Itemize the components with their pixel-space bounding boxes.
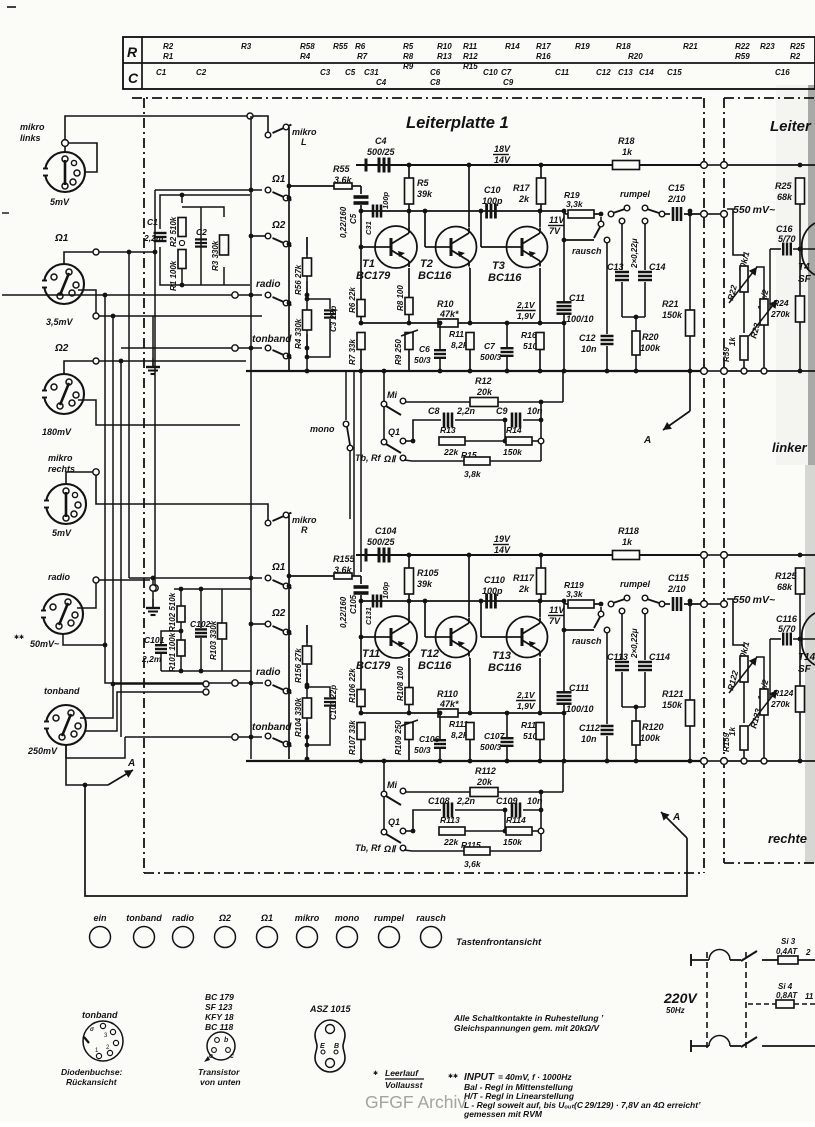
svg-text:tonband: tonband (82, 1010, 118, 1020)
svg-text:gemessen mit RVM: gemessen mit RVM (463, 1109, 543, 1119)
switch rausch (600, 217, 602, 221)
svg-text:5mV: 5mV (52, 528, 72, 538)
svg-text:SF: SF (798, 664, 812, 675)
svg-text:C9: C9 (496, 406, 508, 416)
svg-text:C11: C11 (555, 68, 570, 77)
svg-text:SF: SF (798, 274, 812, 285)
svg-text:T1: T1 (362, 258, 375, 270)
svg-text:C: C (128, 70, 139, 86)
Leiterplatte 1 border right (703, 98, 705, 873)
transistor T11 BC179 (361, 636, 375, 638)
resistor R19 3,3k (562, 211, 601, 214)
Leiterplatte 1 border left (143, 98, 145, 873)
svg-text:C13: C13 (607, 262, 624, 272)
svg-text:Ω2: Ω2 (218, 913, 231, 923)
resistor R104 330k (303, 698, 312, 718)
svg-text:R9: R9 (403, 62, 414, 71)
svg-text:rausch: rausch (572, 246, 602, 256)
arrow A lower channel (686, 838, 688, 876)
socket mikro links (45, 152, 85, 192)
switch bank bus (288, 515, 290, 759)
svg-text:R5: R5 (417, 178, 429, 188)
svg-text:500/3: 500/3 (480, 742, 502, 752)
svg-text:radio: radio (172, 913, 195, 923)
component table frame (123, 37, 815, 89)
feedback line (361, 712, 439, 714)
svg-text:R13: R13 (440, 425, 456, 435)
svg-text:R106 22k: R106 22k (348, 668, 357, 703)
resistor R156 27k (306, 625, 308, 643)
svg-text:Gleichspannungen gem. mit 20kΩ: Gleichspannungen gem. mit 20kΩ/V (454, 1023, 600, 1033)
svg-text:rausch: rausch (416, 913, 446, 923)
svg-text:1k: 1k (622, 537, 633, 547)
svg-text:180mV: 180mV (42, 427, 72, 437)
svg-text:Q1: Q1 (388, 817, 400, 827)
svg-text:C13: C13 (618, 68, 633, 77)
svg-text:Tastenfrontansicht: Tastenfrontansicht (456, 937, 542, 948)
svg-text:R7: R7 (357, 52, 368, 61)
svg-text:Mi: Mi (387, 390, 397, 400)
svg-text:T2: T2 (420, 258, 433, 270)
svg-text:R156 27k: R156 27k (294, 648, 303, 683)
resistor R125 68k (727, 554, 815, 556)
vertical wire bundle left (104, 295, 106, 645)
svg-text:39k: 39k (417, 579, 433, 589)
open terminals at border (701, 552, 708, 559)
svg-text:BC116: BC116 (418, 660, 452, 672)
wire omega1 top (64, 252, 93, 265)
svg-text:C7: C7 (484, 341, 496, 351)
svg-text:Mi: Mi (387, 780, 397, 790)
svg-text:Diodenbuchse:: Diodenbuchse: (61, 1067, 123, 1077)
scan shadow right edge (776, 85, 808, 465)
capacitor C111 100/10 (563, 601, 565, 692)
svg-text:R18: R18 (618, 136, 635, 146)
socket Omega1 left (44, 264, 84, 304)
svg-text:R101 100k: R101 100k (168, 632, 177, 672)
svg-text:C15: C15 (668, 183, 686, 193)
svg-text:19V: 19V (494, 534, 511, 544)
svg-text:✱✱: ✱✱ (448, 1073, 458, 1080)
switch mono (345, 371, 347, 420)
svg-text:R14: R14 (506, 425, 522, 435)
svg-text:C7: C7 (501, 68, 512, 77)
wire tonband row upper (121, 347, 232, 349)
svg-text:von unten: von unten (200, 1077, 241, 1087)
svg-text:14V: 14V (494, 545, 511, 555)
svg-text:BC 118: BC 118 (205, 1022, 233, 1032)
svg-text:R112: R112 (475, 766, 496, 776)
svg-text:R6: R6 (355, 42, 366, 51)
wire mikro links to switch (62, 140, 69, 147)
attenuator network C1 (160, 195, 250, 229)
svg-text:2,2n: 2,2n (456, 796, 476, 806)
switch feed bends (262, 504, 268, 520)
svg-text:Q1: Q1 (388, 427, 400, 437)
open terminals at border (701, 162, 708, 169)
svg-text:Vollausst: Vollausst (385, 1080, 424, 1090)
resistor R5 39k (407, 163, 412, 168)
transistor T12 BC116 (424, 601, 426, 637)
wire 550mV node (727, 209, 744, 257)
svg-text:C31: C31 (364, 68, 379, 77)
ground lower (152, 578, 154, 585)
svg-text:R25: R25 (790, 42, 805, 51)
socket radio (43, 594, 83, 634)
svg-text:100/10: 100/10 (566, 314, 594, 324)
svg-text:C14: C14 (639, 68, 654, 77)
svg-text:150k: 150k (662, 310, 683, 320)
svg-text:R108 100: R108 100 (396, 666, 405, 701)
wire mikro rechts feed (66, 472, 93, 484)
svg-text:C4: C4 (376, 78, 387, 87)
svg-text:BC116: BC116 (488, 272, 522, 284)
resistor R4 330k (303, 310, 312, 330)
socket Omega2 left (44, 374, 84, 414)
svg-text:C104: C104 (375, 526, 397, 536)
wire omega1 bottom (78, 290, 262, 316)
svg-text:KFY 18: KFY 18 (205, 1012, 234, 1022)
svg-text:c: c (230, 1053, 234, 1060)
svg-text:22k: 22k (443, 837, 459, 847)
mains lower wire (690, 1040, 692, 1052)
svg-text:R105: R105 (417, 568, 440, 578)
svg-text:R9 250: R9 250 (394, 339, 403, 365)
svg-text:R1: R1 (163, 52, 174, 61)
svg-text:e: e (209, 1053, 213, 1060)
svg-text:R102 510k: R102 510k (168, 592, 177, 632)
svg-text:Alle Schaltkontakte in Ruheste: Alle Schaltkontakte in Ruhestellung ’ (453, 1013, 604, 1023)
svg-text:Leiter: Leiter (770, 118, 812, 135)
svg-text:C11: C11 (569, 293, 585, 303)
svg-text:R55: R55 (333, 42, 348, 51)
svg-text:C31: C31 (364, 221, 373, 235)
svg-text:150k: 150k (503, 447, 523, 457)
corner registration marks (7, 6, 16, 8)
svg-text:ein: ein (93, 913, 107, 923)
resistor R9 250 (405, 333, 413, 350)
svg-text:R4 330k: R4 330k (294, 318, 303, 349)
wire long bottom run (85, 785, 687, 896)
button ein (90, 927, 111, 948)
svg-text:47k*: 47k* (439, 309, 459, 319)
svg-text:A: A (643, 435, 651, 446)
svg-text:220V: 220V (663, 990, 698, 1006)
signal line (361, 600, 562, 602)
svg-text:BC116: BC116 (418, 270, 452, 282)
inter-channel verticals (353, 371, 355, 576)
svg-text:C1: C1 (156, 68, 167, 77)
wire radio to lower switch (63, 633, 232, 683)
bottom rail right strip (727, 760, 815, 762)
svg-text:T13: T13 (492, 650, 511, 662)
svg-text:68k: 68k (777, 192, 793, 202)
svg-text:R: R (127, 44, 138, 60)
svg-text:500/25: 500/25 (367, 537, 396, 547)
wire radio row upper (2, 294, 232, 296)
svg-text:C16: C16 (776, 224, 794, 234)
resistor R25 68k (727, 164, 815, 166)
svg-text:C8: C8 (428, 406, 440, 416)
svg-text:68k: 68k (777, 582, 793, 592)
svg-text:0,22/160: 0,22/160 (339, 206, 348, 238)
svg-text:tonband: tonband (126, 913, 162, 923)
svg-text:mono: mono (335, 913, 360, 923)
svg-text:rumpel: rumpel (374, 913, 405, 923)
svg-text:0,8AT: 0,8AT (776, 991, 798, 1000)
capacitor C2 (195, 238, 207, 240)
svg-text:R4: R4 (300, 52, 311, 61)
svg-text:Leerlauf: Leerlauf (385, 1068, 419, 1078)
svg-text:ΩⅡ: ΩⅡ (383, 844, 397, 854)
svg-text:5mV: 5mV (50, 197, 70, 207)
svg-text:11: 11 (805, 992, 814, 1001)
switch tonband bank (265, 733, 271, 739)
transistor T1 BC179 (361, 246, 375, 248)
svg-text:C110: C110 (484, 575, 505, 585)
svg-text:ASZ 1015: ASZ 1015 (309, 1004, 352, 1014)
switch Omega1 bank (265, 187, 271, 193)
svg-text:R114: R114 (506, 815, 526, 825)
svg-text:47k*: 47k* (439, 699, 459, 709)
resistor R1 (178, 250, 186, 269)
button tonband (134, 927, 155, 948)
svg-text:500/3: 500/3 (480, 352, 502, 362)
svg-text:C3: C3 (320, 68, 331, 77)
svg-text:R121: R121 (662, 689, 684, 699)
svg-text:C5: C5 (349, 213, 358, 224)
svg-text:T4: T4 (798, 262, 810, 273)
svg-text:150k: 150k (662, 700, 683, 710)
svg-text:C12: C12 (596, 68, 611, 77)
svg-text:R11: R11 (463, 42, 478, 51)
svg-text:R17: R17 (513, 183, 531, 193)
capacitor C110 100p (485, 594, 488, 609)
svg-text:C9: C9 (503, 78, 514, 87)
svg-text:100p: 100p (381, 581, 390, 599)
mains switch upper (741, 951, 757, 961)
svg-text:Ω1: Ω1 (271, 562, 286, 573)
svg-text:C2: C2 (196, 68, 207, 77)
svg-text:R1 100k: R1 100k (169, 260, 178, 291)
svg-text:R55: R55 (333, 164, 351, 174)
wire omega2 top (64, 361, 246, 375)
svg-text:R58: R58 (300, 42, 315, 51)
svg-text:C114: C114 (649, 652, 670, 662)
svg-text:mikro: mikro (295, 913, 320, 923)
svg-text:150k: 150k (503, 837, 523, 847)
svg-text:2k: 2k (518, 584, 530, 594)
svg-text:C3 22p: C3 22p (329, 306, 338, 332)
switch rumpel (599, 212, 604, 217)
capacitor C105 0,22/160 (360, 576, 362, 584)
svg-text:R17: R17 (536, 42, 551, 51)
wire omega2 bottom (78, 400, 240, 425)
resistor R3 (220, 235, 229, 255)
capacitor C11 100/10 (563, 211, 565, 302)
wire bank vertical long (250, 116, 252, 759)
svg-text:7V: 7V (549, 226, 561, 236)
svg-text:C6: C6 (430, 68, 441, 77)
svg-text:20k: 20k (476, 387, 493, 397)
svg-text:2,1V: 2,1V (516, 300, 536, 310)
svg-text:2/10: 2/10 (667, 194, 686, 204)
button radio (173, 927, 194, 948)
svg-text:R6 22k: R6 22k (348, 287, 357, 313)
svg-text:BC116: BC116 (488, 662, 522, 674)
svg-text:Tb, Rf: Tb, Rf (355, 843, 381, 853)
svg-text:R125: R125 (775, 571, 798, 581)
svg-text:radio: radio (256, 667, 280, 678)
switch Omega1 bank (265, 575, 271, 581)
svg-text:Ω1: Ω1 (260, 913, 273, 923)
svg-text:500/25: 500/25 (367, 147, 396, 157)
switch bank bus (288, 127, 290, 371)
svg-text:R24: R24 (773, 298, 789, 308)
capacitor C3 22p (307, 299, 330, 309)
svg-text:mikro: mikro (20, 122, 45, 132)
svg-text:A: A (127, 758, 135, 769)
svg-text:C111: C111 (569, 683, 589, 693)
svg-text:R15: R15 (463, 62, 478, 71)
svg-text:C5: C5 (345, 68, 356, 77)
svg-text:3,8k: 3,8k (464, 469, 482, 479)
svg-text:B: B (334, 1043, 339, 1050)
resistor R105 39k (407, 553, 412, 558)
switch rumpel (599, 602, 604, 607)
svg-text:E: E (320, 1043, 325, 1050)
svg-text:2,2m: 2,2m (141, 654, 162, 664)
svg-text:R2: R2 (163, 42, 174, 51)
svg-text:✱✱: ✱✱ (14, 634, 24, 641)
svg-text:b: b (224, 1037, 229, 1044)
svg-text:R14: R14 (505, 42, 520, 51)
svg-text:R2: R2 (790, 52, 801, 61)
Leiterplatte 1 border top (132, 97, 704, 99)
Leiterplatte 2 border left (723, 98, 725, 863)
svg-text:R3: R3 (241, 42, 252, 51)
svg-text:C113: C113 (607, 652, 628, 662)
svg-text:linker: linker (772, 440, 808, 455)
wire radio socket feed (77, 580, 150, 608)
resistor R18 1k (613, 161, 640, 170)
svg-text:R13: R13 (437, 52, 452, 61)
Leiterplatte 2 border top (724, 97, 815, 99)
resistor R106 22k (360, 637, 362, 689)
svg-text:radio: radio (256, 279, 280, 290)
resistor R119 3,3k (562, 601, 601, 604)
svg-text:0,22/160: 0,22/160 (339, 596, 348, 628)
switch mikro R (265, 520, 271, 526)
svg-text:Leiterplatte 1: Leiterplatte 1 (406, 114, 509, 132)
capacitor C5 0,22/160 (360, 186, 362, 194)
mains upper wire (690, 954, 692, 966)
wire bank common vertical lower (306, 625, 308, 759)
svg-text:100/10: 100/10 (566, 704, 594, 714)
capacitor C104 500/25 (365, 549, 368, 562)
ground upper (152, 316, 154, 358)
svg-text:rumpel: rumpel (620, 189, 651, 199)
svg-text:= 40mV, f · 1000Hz: = 40mV, f · 1000Hz (498, 1072, 572, 1082)
svg-text:C116: C116 (776, 614, 798, 624)
svg-text:✱: ✱ (373, 1070, 378, 1077)
svg-text:Si 4: Si 4 (778, 982, 793, 991)
svg-text:1k: 1k (622, 147, 633, 157)
switch radio bank (265, 292, 271, 298)
svg-text:R110: R110 (437, 689, 458, 699)
transistor T13 BC116 (480, 601, 482, 637)
resistor R108 100 (405, 688, 413, 705)
svg-text:C109: C109 (496, 796, 518, 806)
svg-text:C12: C12 (579, 333, 596, 343)
switch Omega2 bank (265, 233, 271, 239)
svg-text:7V: 7V (549, 616, 561, 626)
svg-text:R155: R155 (333, 554, 356, 564)
wire to A arrow lower (66, 744, 108, 785)
svg-text:3,3k: 3,3k (566, 199, 584, 209)
svg-text:C108: C108 (428, 796, 450, 806)
svg-text:R12: R12 (475, 376, 492, 386)
transistor T3 BC116 (480, 211, 482, 247)
signal line (361, 210, 562, 212)
capacitor C31 100p series (372, 205, 375, 218)
svg-text:R12: R12 (463, 52, 478, 61)
svg-text:mono: mono (310, 424, 335, 434)
svg-text:radio: radio (48, 572, 71, 582)
svg-text:tonband: tonband (252, 722, 292, 733)
svg-text:20k: 20k (476, 777, 493, 787)
svg-text:R118: R118 (618, 526, 639, 536)
Leiterplatte 1 border bottom (144, 872, 704, 874)
svg-text:BC 179: BC 179 (205, 992, 234, 1002)
svg-text:Ω2: Ω2 (54, 343, 69, 354)
svg-text:10n: 10n (581, 344, 597, 354)
switch rausch (600, 607, 602, 611)
svg-text:2k: 2k (518, 194, 530, 204)
svg-text:R21: R21 (662, 299, 679, 309)
button Ω1 (257, 927, 278, 948)
switch mikro L (265, 132, 271, 138)
svg-text:R10: R10 (437, 42, 452, 51)
svg-text:R20: R20 (642, 332, 659, 342)
svg-text:R2 510k: R2 510k (169, 216, 178, 247)
svg-text:R18: R18 (616, 42, 631, 51)
svg-text:2: 2 (805, 948, 811, 957)
svg-text:C4: C4 (375, 136, 387, 146)
svg-text:2×0,22μ: 2×0,22μ (630, 628, 639, 659)
svg-text:39k: 39k (417, 189, 433, 199)
svg-text:A: A (672, 812, 680, 823)
svg-text:R25: R25 (775, 181, 793, 191)
svg-text:10n: 10n (581, 734, 597, 744)
ground rail (246, 760, 704, 762)
svg-text:T3: T3 (492, 260, 505, 272)
svg-text:rausch: rausch (572, 636, 602, 646)
wire 550mV node (727, 599, 744, 647)
Leiterplatte 2 border bottom (724, 862, 815, 864)
svg-text:3,3k: 3,3k (566, 589, 584, 599)
attenuator network C101 lower (174, 588, 251, 590)
svg-text:R103 330k: R103 330k (209, 620, 218, 660)
svg-text:Ω1: Ω1 (54, 233, 69, 244)
svg-text:C103 22p: C103 22p (329, 685, 338, 720)
svg-text:50mV~: 50mV~ (30, 639, 60, 649)
feedback line (361, 322, 439, 324)
transistor T14 partial (802, 613, 815, 665)
svg-text:R19: R19 (575, 42, 590, 51)
resistor R17 2k (539, 163, 544, 168)
wire omega1 switch feed (155, 189, 262, 191)
